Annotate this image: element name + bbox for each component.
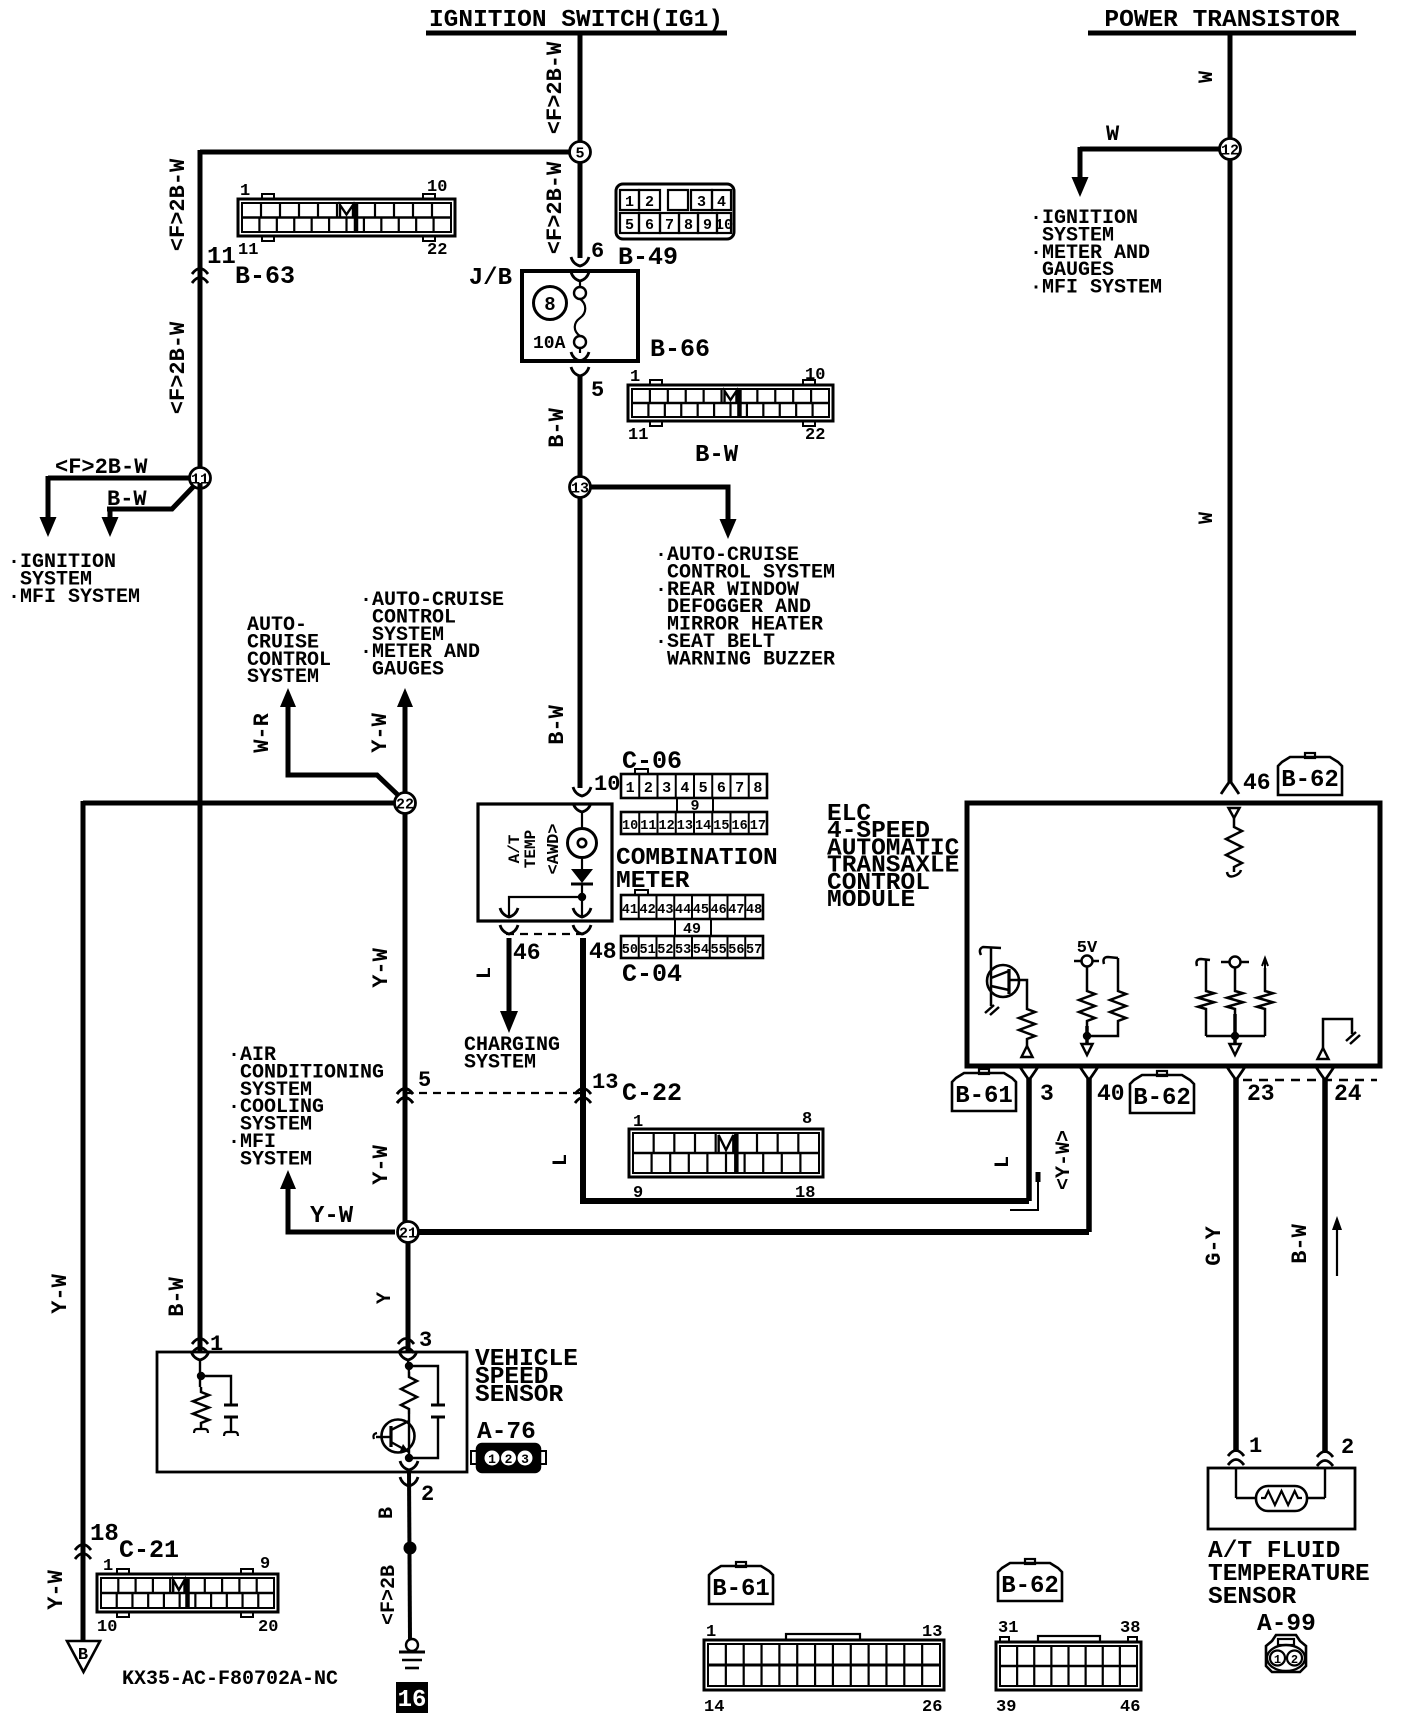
svg-text:W: W	[1196, 512, 1219, 524]
svg-text:1: 1	[633, 1113, 643, 1132]
svg-text:Y-W: Y-W	[369, 947, 394, 987]
svg-text:C-04: C-04	[622, 960, 682, 989]
svg-text:24: 24	[1334, 1081, 1362, 1107]
svg-text:SENSOR: SENSOR	[475, 1382, 564, 1409]
svg-text:56: 56	[728, 943, 744, 958]
svg-text:10: 10	[427, 178, 447, 197]
svg-text:3: 3	[662, 780, 671, 797]
wire meter branch to pin 46	[509, 897, 578, 917]
svg-text:2: 2	[421, 1482, 434, 1507]
svg-text:Y-W: Y-W	[44, 1569, 69, 1609]
connector pass-through B-63 pin 11 chevrons	[192, 269, 208, 275]
svg-text:10: 10	[715, 217, 733, 234]
svg-text:<Y-W>: <Y-W>	[1053, 1130, 1076, 1190]
svg-text:9: 9	[633, 1184, 643, 1203]
svg-text:2: 2	[644, 780, 653, 797]
resistor R1 in sensor	[193, 1387, 209, 1428]
svg-text:3: 3	[1040, 1081, 1054, 1107]
wire Y-W branch from circle 21 to MFI system arrow	[280, 1170, 296, 1189]
svg-text:L: L	[992, 1156, 1015, 1168]
svg-text:13: 13	[592, 1070, 618, 1095]
wire (F)2B-W branch to ignition system / MFI system	[48, 476, 190, 481]
wire dashed crossover to C-22 pin 5	[405, 1092, 583, 1094]
svg-text:1: 1	[1249, 1434, 1262, 1459]
wire Y-W from circle 22 down to circle 21	[403, 813, 408, 1222]
svg-text:6: 6	[591, 239, 604, 264]
svg-text:8: 8	[753, 780, 762, 797]
svg-text:18: 18	[90, 1521, 119, 1548]
svg-text:46: 46	[711, 903, 727, 918]
svg-text:Y-W: Y-W	[310, 1203, 354, 1230]
svg-text:W: W	[1106, 122, 1120, 147]
junction block J/B box	[522, 271, 638, 361]
svg-text:10: 10	[97, 1618, 117, 1637]
svg-text:SYSTEM: SYSTEM	[464, 1051, 536, 1074]
svg-text:9: 9	[703, 217, 712, 234]
svg-text:SENSOR: SENSOR	[1208, 1584, 1297, 1611]
svg-text:12: 12	[1221, 143, 1239, 160]
svg-text:C-21: C-21	[119, 1536, 179, 1565]
fuse 8 10A inside J/B	[571, 272, 589, 281]
wire Y-W branch to auto-cruise / meter and gauges	[397, 688, 413, 707]
connector C-22 pass-through chevrons on L wire	[575, 1089, 591, 1095]
connector B-62 tag	[998, 1563, 1062, 1601]
svg-text:13: 13	[571, 481, 589, 498]
svg-text:3: 3	[521, 1452, 529, 1467]
connector C-22 18-pin grid	[629, 1129, 823, 1177]
wire Y from circle 21 down to vehicle speed sensor pin 3	[406, 1242, 411, 1352]
svg-text:51: 51	[640, 943, 656, 958]
connector tag B-62 at ELC pin 46	[1278, 757, 1342, 795]
resistor pull-up on pin 46 inside ELC	[1229, 808, 1240, 818]
svg-text:21: 21	[399, 1226, 417, 1243]
wire shield drain stub near pin 3	[1036, 1172, 1041, 1182]
connector B-63 22-pin grid	[238, 199, 455, 236]
svg-text:B-63: B-63	[235, 262, 295, 291]
svg-text:46: 46	[1120, 1698, 1140, 1717]
svg-text:13: 13	[922, 1623, 942, 1642]
svg-text:B: B	[376, 1507, 399, 1519]
wire B from sensor pin 2 to ground 16	[400, 1477, 418, 1486]
svg-text:6: 6	[717, 780, 726, 797]
op-amp ELC module outline box	[967, 803, 1380, 1066]
wire dashed pair link pins 23-24	[1243, 1079, 1377, 1081]
wire B-W from circle 11 down to vehicle speed sensor pin 1	[198, 483, 203, 1352]
svg-text:41: 41	[622, 903, 638, 918]
wire (F)2B-W from junction 5 to J/B fuse block	[578, 162, 583, 258]
wire (F)2B-W from ignition switch down to junction 5	[578, 33, 583, 142]
transistor vehicle speed sensor box	[157, 1352, 467, 1472]
combination meter box	[478, 804, 612, 921]
svg-text:Y-W: Y-W	[369, 1144, 394, 1184]
svg-text:38: 38	[1120, 1619, 1140, 1638]
svg-text:1: 1	[1274, 1653, 1281, 1667]
svg-text:L: L	[550, 1154, 573, 1166]
ELC pin 3	[1020, 1067, 1038, 1080]
svg-text:IGNITION SWITCH(IG1): IGNITION SWITCH(IG1)	[429, 7, 723, 34]
svg-text:40: 40	[1097, 1081, 1125, 1107]
svg-text:46: 46	[1243, 770, 1271, 796]
svg-text:8: 8	[684, 217, 693, 234]
svg-text:14: 14	[695, 819, 711, 834]
svg-text:14: 14	[704, 1698, 724, 1717]
connector A-99 round icon	[1266, 1635, 1306, 1672]
svg-text:C-22: C-22	[622, 1079, 682, 1108]
svg-text:1: 1	[488, 1452, 496, 1467]
diode in meter	[581, 857, 583, 869]
svg-text:18: 18	[795, 1184, 815, 1203]
thermistor A/T fluid temperature sensor box	[1208, 1468, 1355, 1529]
svg-text:43: 43	[657, 903, 673, 918]
node meter internal junction	[581, 884, 583, 917]
svg-text:B-62: B-62	[1133, 1085, 1191, 1112]
svg-text:42: 42	[640, 903, 656, 918]
svg-text:<F>2B-W: <F>2B-W	[55, 455, 148, 480]
svg-text:W-R: W-R	[250, 712, 275, 752]
svg-text:4: 4	[717, 194, 726, 211]
svg-text:48: 48	[746, 903, 762, 918]
svg-text:KX35-AC-F80702A-NC: KX35-AC-F80702A-NC	[122, 1668, 338, 1691]
svg-text:B: B	[78, 1646, 88, 1665]
svg-text:GAUGES: GAUGES	[360, 659, 444, 682]
svg-text:3: 3	[419, 1328, 432, 1353]
svg-text:SYSTEM: SYSTEM	[228, 1148, 312, 1171]
pin 9 between C-06 rows	[676, 798, 678, 812]
svg-text:5: 5	[591, 378, 604, 403]
thermistor element	[1256, 1486, 1307, 1511]
wire L to charging system	[507, 938, 512, 1013]
node splice dot on ground wire	[404, 1542, 417, 1555]
connector C-04 pass-through pins 46 48	[500, 925, 518, 934]
wire B-W short branch arrow	[107, 486, 194, 509]
svg-text:7: 7	[735, 780, 744, 797]
svg-text:METER: METER	[616, 868, 690, 895]
wire L from meter pin 48 down and right to ELC pin 3	[583, 938, 1029, 1201]
resistor R2 in sensor	[401, 1372, 417, 1414]
svg-text:1: 1	[626, 780, 635, 797]
node junction circle 11	[190, 468, 211, 489]
svg-text:3: 3	[697, 194, 706, 211]
svg-text:1: 1	[103, 1557, 113, 1576]
svg-text:B-W: B-W	[1288, 1223, 1313, 1263]
svg-text:48: 48	[589, 939, 617, 965]
capacitor C1 in sensor	[224, 1404, 238, 1407]
wire W-R branch to auto-cruise control system	[280, 688, 296, 707]
svg-text:B-W: B-W	[545, 407, 570, 447]
svg-text:22: 22	[427, 241, 447, 260]
node junction circle 22	[395, 793, 416, 814]
svg-text:1: 1	[706, 1623, 716, 1642]
wire Y-W left drop to ground triangle B	[81, 801, 86, 1641]
transistor Q1 lamp driver inside ELC	[980, 947, 1001, 955]
pin 49 between C-04 rows	[674, 919, 676, 936]
svg-text:5: 5	[625, 217, 634, 234]
svg-text:7: 7	[665, 217, 674, 234]
svg-text:45: 45	[693, 903, 709, 918]
svg-text:B-62: B-62	[1281, 767, 1339, 794]
wire Y-W from circle 22 left to x=83 drop	[83, 801, 395, 806]
svg-text:31: 31	[998, 1619, 1018, 1638]
svg-text:1: 1	[630, 368, 640, 387]
svg-text:B-W: B-W	[165, 1276, 190, 1316]
svg-text:54: 54	[693, 943, 709, 958]
connector A-76 3-pin icon	[477, 1444, 540, 1472]
wire B-W branch to auto-cruise etc.	[591, 487, 728, 519]
svg-text:13: 13	[677, 819, 693, 834]
svg-text:·MFI SYSTEM: ·MFI SYSTEM	[8, 586, 140, 609]
svg-text:2: 2	[1341, 1435, 1354, 1460]
svg-text:16: 16	[398, 1687, 427, 1714]
svg-text:B-66: B-66	[650, 335, 710, 364]
svg-text:50: 50	[622, 943, 638, 958]
svg-text:11: 11	[628, 426, 648, 445]
svg-text:POWER TRANSISTOR: POWER TRANSISTOR	[1104, 7, 1340, 34]
svg-text:12: 12	[659, 819, 675, 834]
svg-text:9: 9	[260, 1555, 270, 1574]
svg-text:5: 5	[418, 1068, 431, 1093]
svg-text:B-62: B-62	[1001, 1573, 1059, 1600]
svg-text:<F>2B: <F>2B	[378, 1565, 401, 1625]
svg-text:A-76: A-76	[477, 1419, 536, 1446]
svg-text:52: 52	[657, 943, 673, 958]
wire (F)2B-W left drop at x=200	[198, 150, 203, 473]
svg-text:SYSTEM: SYSTEM	[247, 666, 319, 689]
capacitor C2 in sensor	[431, 1404, 445, 1407]
svg-text:Y-W: Y-W	[48, 1273, 73, 1313]
connector tag B-61 at ELC pin 3	[952, 1073, 1016, 1111]
svg-text:W: W	[1196, 71, 1219, 83]
node junction circle 21	[398, 1222, 419, 1243]
wire B-W from junction 13 to combination meter pin 10	[578, 497, 583, 788]
svg-text:WARNING BUZZER: WARNING BUZZER	[655, 648, 835, 671]
ELC pin 40	[1080, 1067, 1098, 1080]
node junction circle 5	[570, 142, 591, 163]
wire W from junction 12 to ELC pin 46	[1228, 159, 1233, 783]
svg-text:1: 1	[625, 194, 634, 211]
svg-text:53: 53	[675, 943, 691, 958]
svg-text:<F>2B-W: <F>2B-W	[543, 161, 568, 254]
svg-text:<F>2B-W: <F>2B-W	[166, 158, 191, 251]
connector tag B-62 at ELC pin 40	[1130, 1075, 1194, 1113]
sensor pin1 internal network	[191, 1351, 209, 1360]
svg-text:46: 46	[513, 940, 541, 966]
wire W branch to ignition system meter gauges mfi	[1080, 147, 1219, 152]
lamp A/T TEMP indicator bulb	[581, 812, 583, 829]
svg-text:57: 57	[746, 943, 762, 958]
svg-text:B-W: B-W	[107, 487, 147, 512]
svg-text:<F>2B-W: <F>2B-W	[543, 41, 568, 134]
node junction circle 12	[1220, 139, 1241, 160]
svg-text:·MFI SYSTEM: ·MFI SYSTEM	[1030, 277, 1162, 300]
connector C-04 two-row grid	[621, 895, 763, 919]
svg-text:B-W: B-W	[695, 442, 739, 469]
svg-text:4: 4	[680, 780, 689, 797]
svg-text:G-Y: G-Y	[1202, 1225, 1227, 1265]
svg-text:15: 15	[713, 819, 729, 834]
resistor second of 5V divider	[1104, 957, 1119, 964]
svg-text:C-06: C-06	[622, 747, 682, 776]
connector B-62 16-pin grid	[996, 1642, 1141, 1690]
wire direction arrow up beside B-W	[1336, 1228, 1338, 1276]
wire W from power transistor to junction 12	[1228, 33, 1233, 139]
svg-text:L: L	[474, 967, 497, 979]
svg-text:<AWD>: <AWD>	[545, 823, 564, 874]
svg-text:<F>2B-W: <F>2B-W	[166, 321, 191, 414]
svg-text:10: 10	[805, 366, 825, 385]
svg-text:2: 2	[1291, 1653, 1298, 1667]
svg-text:B-61: B-61	[712, 1576, 770, 1603]
svg-text:22: 22	[805, 426, 825, 445]
svg-text:5: 5	[575, 146, 584, 163]
svg-text:2: 2	[505, 1452, 513, 1467]
svg-text:20: 20	[258, 1618, 278, 1637]
svg-text:11: 11	[640, 819, 656, 834]
svg-text:B-61: B-61	[955, 1083, 1013, 1110]
node junction circle 13	[570, 477, 591, 498]
ground chassis symbol	[406, 1639, 418, 1651]
svg-text:11: 11	[207, 244, 236, 271]
svg-text:39: 39	[996, 1698, 1016, 1717]
svg-text:47: 47	[728, 903, 744, 918]
svg-text:26: 26	[922, 1698, 942, 1717]
svg-text:2: 2	[645, 194, 654, 211]
svg-text:B-49: B-49	[618, 243, 678, 272]
svg-text:16: 16	[732, 819, 748, 834]
svg-text:1: 1	[240, 182, 250, 201]
svg-text:44: 44	[675, 903, 691, 918]
svg-text:55: 55	[711, 943, 727, 958]
ELC pin 24	[1316, 1067, 1334, 1080]
svg-text:MODULE: MODULE	[827, 887, 915, 914]
svg-text:5: 5	[699, 780, 708, 797]
svg-text:6: 6	[645, 217, 654, 234]
svg-text:TEMP: TEMP	[522, 830, 540, 868]
connector B-61 tag	[709, 1566, 773, 1604]
svg-text:11: 11	[238, 241, 258, 260]
svg-text:8: 8	[802, 1110, 812, 1129]
svg-text:Y-W: Y-W	[368, 712, 393, 752]
connector B-61 26-pin grid	[704, 1640, 944, 1690]
resistor group for A/T fluid temp sensor input pin 23	[1197, 959, 1211, 966]
svg-text:8: 8	[544, 294, 555, 316]
ELC pin 23	[1227, 1067, 1245, 1080]
connector B-49 10-pin grid	[616, 184, 734, 239]
svg-text:23: 23	[1247, 1081, 1275, 1107]
sensor pin3 internal network	[399, 1351, 417, 1360]
wire branch from junction 5 left to B-63 drop	[200, 150, 570, 155]
svg-text:10A: 10A	[533, 334, 566, 354]
resistor on transistor output to pin 3	[1009, 980, 1027, 1004]
svg-text:B-W: B-W	[545, 704, 570, 744]
svg-text:10: 10	[594, 772, 620, 797]
svg-text:10: 10	[622, 819, 638, 834]
svg-text:22: 22	[396, 797, 414, 814]
ground return for pin 24 inside ELC	[1323, 1019, 1352, 1048]
wire Y-W from circle 21 right to ELC pin 40	[418, 1229, 1089, 1235]
svg-text:J/B: J/B	[469, 265, 512, 292]
svg-text:17: 17	[750, 819, 766, 834]
ground triangle B at bottom of Y-W wire	[67, 1641, 100, 1672]
wire B-W from J/B to junction 13	[571, 367, 589, 376]
ground reference label 16	[396, 1682, 428, 1713]
transistor Q2 output in sensor	[408, 1414, 410, 1458]
svg-text:Y: Y	[374, 1292, 397, 1304]
